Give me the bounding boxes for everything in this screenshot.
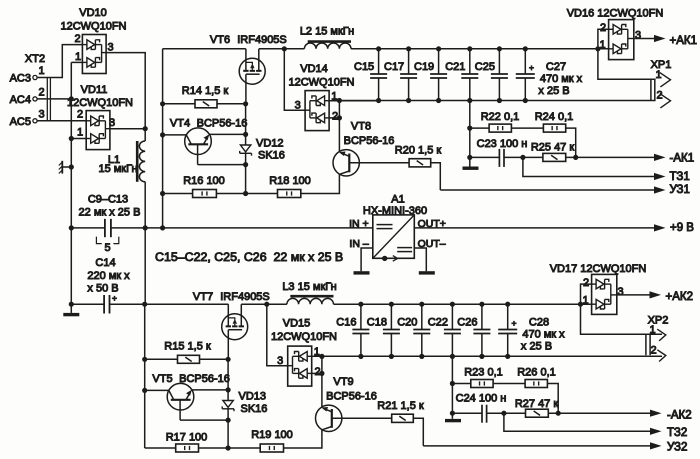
capacitor C24 plates [481, 405, 483, 423]
resistor R27 47k [526, 409, 549, 417]
wire L1 bottom to middle rail [144, 182, 146, 228]
wire VD11 pin 1 [71, 138, 86, 140]
svg-text:2: 2 [74, 33, 80, 45]
wire A1 OUT+ to +9V [414, 227, 654, 229]
output arrow T31 [654, 173, 666, 180]
middle rail left segment with C9-C13 [71, 227, 105, 229]
svg-text:С9–С13: С9–С13 [88, 194, 128, 206]
svg-text:3: 3 [109, 117, 115, 129]
sub-block vertical VT5 [144, 304, 146, 448]
wire VT8 base to R20 [349, 162, 409, 164]
svg-text:12CWQ10FN: 12CWQ10FN [271, 331, 337, 343]
svg-text:L3 15 мкГн: L3 15 мкГн [282, 281, 336, 293]
svg-text:С15–С22, С25, С26 22 мк х 25: С15–С22, С25, С26 22 мк х 25 В [155, 250, 343, 264]
inductor L1 core bar [136, 141, 139, 182]
wire R17 to R19 [199, 447, 261, 449]
capacitor C14 plates [103, 295, 105, 314]
svg-text:L2 15 мкГн: L2 15 мкГн [300, 25, 354, 37]
capacitor C21 [469, 49, 471, 74]
svg-text:2: 2 [332, 110, 338, 122]
svg-text:C14: C14 [95, 257, 115, 269]
svg-text:AC4: AC4 [10, 94, 31, 106]
svg-text:-АК2: -АК2 [667, 409, 692, 421]
bracket x5 under C9-C13 [96, 237, 101, 244]
svg-text:3: 3 [277, 355, 283, 367]
wire T31 [523, 157, 654, 176]
wire AC4 to vertical bus [37, 98, 71, 100]
wire VD14 pin 2 to VT8 emitter [329, 117, 339, 119]
svg-text:C17: C17 [384, 61, 404, 73]
svg-text:+АК2: +АК2 [666, 291, 693, 303]
junction gate node / VD13 anode [226, 387, 231, 392]
wire VT4 emitter to gate node [209, 133, 246, 135]
svg-text:VT8: VT8 [351, 120, 371, 132]
svg-text:VD10: VD10 [79, 7, 107, 19]
junction C20 top [419, 302, 424, 307]
output arrow +AK2 [650, 291, 662, 298]
junction VD16 pin2 / rail [595, 46, 600, 51]
junction VD15 pin3 branch [264, 302, 269, 307]
svg-text:R15 1,5 к: R15 1,5 к [164, 341, 211, 353]
capacitor C20 [421, 304, 423, 329]
VT7 gate vertical through VD13 [227, 359, 229, 400]
svg-text:VT9: VT9 [333, 376, 353, 388]
svg-text:х 25 В: х 25 В [521, 341, 552, 353]
svg-text:3: 3 [617, 286, 623, 298]
svg-text:C19: C19 [414, 61, 434, 73]
top rail from L2 to VD16 [351, 48, 609, 50]
svg-text:BCP56-16: BCP56-16 [344, 135, 395, 147]
svg-text:3: 3 [635, 29, 641, 41]
VT4 emitter diagonal with arrow [204, 137, 209, 145]
junction C26 bottom [479, 354, 484, 359]
transistor VT9 BCP56-16 [316, 405, 342, 431]
junction VD11 pin3 / L1 [143, 126, 148, 131]
diode VD12 SK16 [240, 145, 250, 152]
inductor L2 winding [304, 43, 351, 49]
VT6 gate vertical through VD12 [245, 104, 247, 145]
junction C19 bottom [436, 98, 441, 103]
MOSFET VT6 IRF4905S [239, 58, 265, 84]
svg-text:IRF4905S: IRF4905S [220, 291, 270, 303]
svg-text:ТЗ1: ТЗ1 [670, 171, 690, 183]
junction lower rail / VT5 sub-block vertical [142, 302, 147, 307]
wire U31 [440, 189, 654, 191]
junction R14 left [160, 101, 165, 106]
svg-text:VT7: VT7 [193, 291, 213, 303]
svg-text:2: 2 [77, 109, 83, 121]
wire -AK1 line [470, 156, 500, 158]
junction VT sub-block vertical / middle rail [160, 225, 165, 230]
svg-text:15 мкГн: 15 мкГн [98, 163, 137, 175]
svg-text:C22: C22 [428, 316, 448, 328]
svg-text:VD13: VD13 [239, 391, 267, 403]
capacitor C16 [360, 304, 362, 329]
svg-text:1: 1 [38, 65, 44, 77]
svg-text:R20 1,5 к: R20 1,5 к [395, 145, 442, 157]
wire rail to XP2 pin 1 [581, 304, 663, 334]
A1 diagonal [373, 215, 415, 258]
ground bar A1 output [419, 271, 435, 274]
svg-text:12CWQ10FN: 12CWQ10FN [60, 20, 126, 32]
capacitor C26 [481, 304, 483, 329]
resistor R20 1.5k [409, 159, 431, 167]
junction R15 left [142, 357, 147, 362]
svg-text:-АК1: -АК1 [670, 153, 695, 165]
wire VD10 pin 3 to L1 top [106, 53, 145, 141]
capacitor C19 [438, 49, 440, 74]
junction C22 top [450, 302, 455, 307]
junction VD14 pin 2 [337, 115, 342, 120]
svg-text:C21: C21 [445, 61, 465, 73]
wire T32 [504, 413, 650, 431]
junction VD17 pin2 / rail [578, 302, 583, 307]
output arrow +AK1 [654, 35, 666, 42]
vertical from C21 node to ground [469, 101, 471, 167]
resistor R17 100 [176, 444, 199, 452]
svg-text:SK16: SK16 [241, 403, 268, 415]
capacitor C9-C13 plates [104, 219, 106, 237]
svg-text:С23 100 н: С23 100 н [477, 138, 528, 150]
wire VD16 pin 2 [598, 29, 609, 49]
svg-text:R27 47 к: R27 47 к [515, 398, 559, 410]
svg-text:1: 1 [582, 294, 588, 306]
diode pack VD17 12CWQ10FN [592, 274, 617, 314]
wire R21 to U32 line [413, 418, 423, 446]
wire AC5 to VD11 pin 2 [37, 120, 86, 122]
VT8 emitter diagonal with arrow [341, 153, 349, 156]
lower channel rail from ground to VT7 [71, 303, 104, 305]
wire L1 rail down to lower channel rail [144, 228, 146, 304]
svg-text:VD12: VD12 [256, 137, 284, 149]
A1 DC output bars [397, 247, 412, 249]
MOSFET VT7 IRF4905S [222, 314, 248, 340]
capacitor C17 [408, 49, 410, 74]
svg-text:1: 1 [77, 127, 83, 139]
resistor R23 0.1 [452, 383, 470, 385]
resistor R26 0.1 [525, 380, 547, 388]
wire to VD15 pin 3 [267, 304, 288, 366]
wire AC3 to VD10 pin 2 [37, 45, 82, 78]
wire +AK1 output [634, 38, 654, 40]
wire VT5 base to VD13 cathode node [180, 419, 228, 421]
vertical from C22 node to ground [451, 356, 453, 418]
VT5 collector diagonal [169, 390, 174, 399]
junction C17 top [406, 46, 411, 51]
wire A1 IN- to ground [361, 248, 373, 271]
VT9 emitter diagonal with arrow [324, 408, 332, 411]
junction C28 bottom [505, 354, 510, 359]
capacitor C25 [498, 49, 500, 74]
output arrow U32 [650, 442, 662, 449]
svg-text:УЗ1: УЗ1 [670, 184, 690, 196]
svg-text:XT2: XT2 [25, 53, 45, 65]
diode pack VD10 12CWQ10FN [82, 35, 106, 74]
wire VD15 pin 1 to cap rail [312, 355, 361, 357]
svg-text:R17 100: R17 100 [166, 432, 208, 444]
junction VT4 collector [160, 132, 165, 137]
svg-text:2: 2 [314, 366, 320, 378]
svg-text:C20: C20 [397, 316, 417, 328]
wire VD15 pin 2 to VT9 emitter [312, 372, 322, 374]
junction C19 top [436, 46, 441, 51]
junction left vertical / middle rail [69, 225, 74, 230]
junction C15 bottom [376, 98, 381, 103]
svg-text:220 мк х: 220 мк х [87, 270, 130, 282]
junction C23 left [467, 155, 472, 160]
wire +AK2 output [617, 294, 650, 296]
top rail right segment from VT6 drain [259, 48, 305, 50]
A1 regulation dot and arrow [382, 256, 387, 261]
wire R18 to VT8 collector lead [301, 174, 340, 193]
junction VT5 collector [142, 388, 147, 393]
inductor L1 winding [139, 141, 145, 182]
cap rail to XP2 pin 2 [322, 355, 662, 357]
wire R23 to R26 [493, 383, 525, 385]
wire U32 [423, 445, 650, 447]
wire -AK2 line [452, 412, 482, 414]
ground bar A1 input [354, 271, 370, 274]
svg-text:С24 100 н: С24 100 н [456, 393, 507, 405]
ground bar below C22 branch [445, 419, 461, 422]
wire VD10 pin1 / AC4 / ground vertical [70, 62, 72, 304]
resistor R14 1.5k [163, 103, 195, 105]
svg-text:R23 0,1: R23 0,1 [464, 367, 503, 379]
svg-text:IN +: IN + [349, 218, 369, 230]
svg-text:2: 2 [600, 22, 606, 34]
resistor R22 0.1 [470, 127, 489, 129]
junction VD15 pin 1 [319, 354, 324, 359]
svg-text:SK16: SK16 [258, 150, 285, 162]
cable bus double lines at XT2 [46, 78, 48, 121]
XP1 body double bars [650, 79, 652, 100]
junction C16 top [358, 302, 363, 307]
svg-text:R18 100: R18 100 [269, 175, 311, 187]
svg-text:C16: C16 [336, 316, 356, 328]
resistor R21 1.5k [392, 414, 414, 422]
svg-text:VT4: VT4 [170, 117, 190, 129]
svg-text:+9 В: +9 В [670, 222, 694, 234]
svg-text:12CWQ10FN: 12CWQ10FN [67, 97, 133, 109]
svg-text:VD14: VD14 [300, 63, 328, 75]
capacitor C28 electrolytic [507, 304, 509, 329]
capacitor C15 [378, 49, 380, 74]
junction C25 bottom [497, 98, 502, 103]
resistor R18 100 [278, 190, 301, 198]
output arrow -AK2 [650, 410, 662, 417]
svg-text:R16 100: R16 100 [183, 175, 225, 187]
A1 DC input bars [377, 224, 393, 226]
svg-text:2: 2 [583, 277, 589, 289]
wire R22 to R24 [511, 127, 543, 129]
junction VD11 pin 1 [69, 136, 74, 141]
wire R20 to U31 line [431, 163, 441, 190]
svg-text:VT6: VT6 [210, 34, 230, 46]
svg-text:+: + [529, 63, 534, 73]
svg-text:C26: C26 [457, 316, 477, 328]
junction VD13 bottom / R17-R19 line [226, 445, 231, 450]
junction C28 top [505, 302, 510, 307]
wire R16 to R18 [216, 193, 277, 195]
junction C25 top [497, 46, 502, 51]
VT8 collector diagonal [340, 171, 349, 174]
svg-text:A1: A1 [391, 193, 404, 205]
transistor VT8 BCP56-16 [333, 150, 359, 176]
junction C17 bottom [406, 98, 411, 103]
junction -AK2 / R26 [556, 411, 561, 416]
VT5 base lead down [179, 400, 181, 420]
junction C22 bottom [450, 354, 455, 359]
svg-text:R14 1,5 к: R14 1,5 к [182, 85, 229, 97]
junction C15 top [376, 46, 381, 51]
VT9 collector diagonal [322, 427, 331, 430]
output arrow T32 [650, 428, 662, 435]
wire A1 OUT- to ground [414, 248, 426, 271]
diode VD13 SK16 [223, 401, 233, 408]
junction AC4 [69, 96, 74, 101]
vertical VD15 pin1 to VT9 [321, 356, 323, 408]
svg-text:C15: C15 [354, 61, 374, 73]
svg-text:R25 47 к: R25 47 к [531, 142, 575, 154]
wire R24 to -AK1 line [566, 128, 576, 157]
svg-text:470 мк х: 470 мк х [522, 329, 565, 341]
svg-text:C25: C25 [475, 61, 495, 73]
svg-text:+: + [512, 318, 517, 328]
junction C26 top [479, 302, 484, 307]
junction R14 right / VT6 gate [243, 101, 248, 106]
VT4 base lead down [197, 144, 199, 164]
wire VD17 pin 2 [581, 284, 592, 304]
VT5 emitter diagonal with arrow [186, 392, 191, 400]
resistor R15 1.5k [145, 358, 178, 360]
junction VD15 pin 2 [319, 371, 324, 376]
capacitor C18 [390, 304, 392, 329]
junction T32 branch [501, 411, 506, 416]
junction ground tap [69, 164, 74, 169]
svg-text:VD11: VD11 [81, 84, 108, 96]
wire VT5 collector [145, 389, 169, 391]
transistor VT5 BCP56-16 [167, 383, 194, 410]
svg-text:470 мк х: 470 мк х [540, 73, 583, 85]
R17-R19 line left segment [145, 447, 176, 449]
junction C18 bottom [389, 354, 394, 359]
wire to VD14 pin 3 [284, 49, 305, 110]
svg-text:VD15: VD15 [283, 317, 311, 329]
svg-text:ТЗ2: ТЗ2 [667, 427, 687, 439]
svg-text:BCP56-16: BCP56-16 [197, 117, 248, 129]
resistor R19 100 [260, 444, 283, 452]
middle rail to A1 IN+ [145, 227, 373, 229]
chassis ground near XT2 [62, 166, 71, 168]
diode pack VD16 12CWQ10FN [609, 20, 634, 60]
wire VD10 pin 1 [71, 61, 82, 63]
svg-text:3: 3 [295, 100, 301, 112]
top rail from sub-block to VT6 source [163, 48, 246, 50]
junction R23 line [450, 381, 455, 386]
left vertical of VT6 gate sub-block [162, 49, 164, 228]
svg-text:УЗ2: УЗ2 [667, 441, 687, 453]
capacitor C27 electrolytic [524, 49, 526, 74]
diode pack VD11 12CWQ10FN [86, 111, 110, 150]
resistor R25 47k [543, 153, 566, 161]
junction C21 bottom [467, 98, 472, 103]
output arrow U31 [654, 186, 666, 193]
svg-text:R21 1,5 к: R21 1,5 к [377, 400, 424, 412]
terminal AC4 [33, 97, 37, 101]
svg-text:R24 0,1: R24 0,1 [535, 111, 574, 123]
svg-text:VD16 12CWQ10FN: VD16 12CWQ10FN [567, 8, 664, 20]
svg-text:+АК1: +АК1 [670, 35, 697, 47]
svg-text:IRF4905S: IRF4905S [237, 34, 287, 46]
svg-text:AC5: AC5 [10, 116, 31, 128]
svg-text:VT5: VT5 [152, 373, 172, 385]
vertical VD14 pin1 to VT8 [338, 101, 340, 153]
junction C20 bottom [419, 354, 424, 359]
junction L1 / C9-C13 rail [143, 225, 148, 230]
diode pack VD15 12CWQ10FN [288, 346, 312, 386]
svg-text:5: 5 [105, 242, 111, 254]
R16-R18 line left segment [163, 193, 193, 195]
wire R19 to VT9 collector lead [284, 430, 322, 448]
wire rail to XP1 pin 1 [598, 49, 656, 80]
junction R16 line left [160, 191, 165, 196]
svg-text:C28: C28 [529, 316, 549, 328]
svg-text:х 25 В: х 25 В [538, 85, 569, 97]
module A1 HX-MINI-360 box [373, 215, 415, 258]
svg-text:22 мк х 25 В: 22 мк х 25 В [79, 207, 141, 219]
terminal AC5 [33, 119, 37, 123]
wire VT9 base to R21 [332, 417, 392, 419]
capacitor C23 plates [498, 149, 500, 167]
terminal AC3 [33, 75, 37, 79]
cap rail to XP1 pin 2 [339, 100, 655, 102]
svg-text:R19 100: R19 100 [251, 429, 293, 441]
wire VD11 pin 3 to L1 [110, 128, 145, 130]
svg-text:BCP56-16: BCP56-16 [326, 391, 377, 403]
wire VT4 collector [163, 134, 187, 136]
inductor L3 winding [287, 298, 334, 304]
output arrow +9V [654, 224, 666, 231]
lower rail right segment from VT7 [241, 303, 287, 305]
diode pack VD14 12CWQ10FN [305, 91, 329, 131]
junction C24 left [450, 411, 455, 416]
svg-text:R22 0,1: R22 0,1 [481, 111, 520, 123]
svg-text:VD17 12CWQ10FN: VD17 12CWQ10FN [550, 263, 647, 275]
inductor L3 core bar [290, 295, 333, 298]
junction VD14 pin 1 [337, 98, 342, 103]
junction T31 branch [520, 155, 525, 160]
ground bar below C14 junction [70, 304, 72, 313]
junction R15 right / VT7 gate [226, 357, 231, 362]
capacitor C22 [451, 304, 453, 329]
XP2 body double bars [645, 334, 647, 355]
wire VD14 pin 1 to cap rail [329, 100, 379, 102]
svg-text:+: + [112, 293, 117, 303]
svg-text:1: 1 [75, 51, 81, 63]
resistor R16 100 [193, 190, 217, 198]
lower rail from L3 to VD17 [334, 303, 592, 305]
svg-text:BCP56-16: BCP56-16 [179, 373, 230, 385]
junction C27 bottom [523, 98, 528, 103]
svg-text:1: 1 [655, 69, 661, 81]
svg-text:12CWQ10FN: 12CWQ10FN [288, 77, 354, 89]
junction R22 line [467, 126, 472, 131]
output arrow -AK1 [654, 154, 666, 161]
junction C14 left [69, 302, 74, 307]
junction C18 top [389, 302, 394, 307]
junction VD12 bottom / R16-R18 line [243, 191, 248, 196]
junction gate node / VD12 anode [243, 132, 248, 137]
